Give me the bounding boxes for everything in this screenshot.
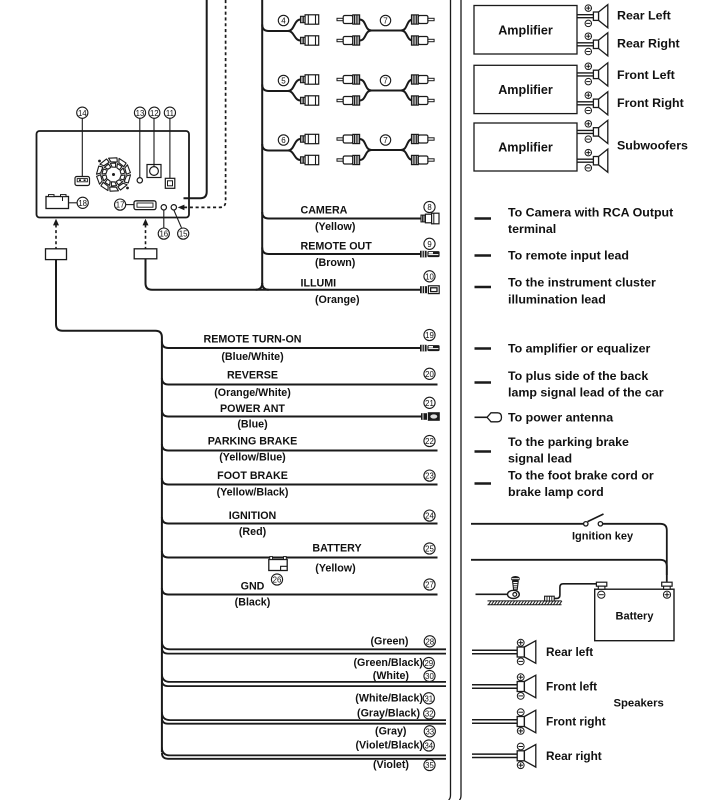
label circle 11 xyxy=(164,107,175,118)
svg-text:POWER ANT: POWER ANT xyxy=(220,403,285,415)
label circle 32 xyxy=(424,708,435,719)
minus terminal xyxy=(585,48,592,55)
port 13 (mic jack) xyxy=(137,178,142,183)
port 11 (optical connector) xyxy=(165,178,175,188)
svg-text:To remote input lead: To remote input lead xyxy=(508,249,629,263)
connector 18 (power harness socket) xyxy=(46,195,69,209)
plus terminal xyxy=(585,33,592,40)
svg-text:Rear Left: Rear Left xyxy=(617,9,671,23)
fuse 26 on battery lead xyxy=(269,557,287,571)
svg-text:(Blue): (Blue) xyxy=(237,419,268,431)
svg-text:35: 35 xyxy=(425,761,434,770)
svg-text:(Gray/Black): (Gray/Black) xyxy=(357,708,420,720)
USB port 14 xyxy=(75,177,90,186)
svg-text:29: 29 xyxy=(424,659,433,668)
bus wire from top edge (RCA/output harness) xyxy=(261,0,263,284)
svg-text:(Brown): (Brown) xyxy=(315,257,356,269)
RCA female jack bottom (4) xyxy=(301,37,306,43)
wire REMOTE OUT (brown) xyxy=(262,248,420,255)
wire REMOTE TURN-ON xyxy=(162,342,420,349)
port 12 (antenna jack U12) xyxy=(147,165,161,178)
speaker xyxy=(593,40,598,48)
svg-text:PARKING BRAKE: PARKING BRAKE xyxy=(208,435,297,447)
svg-text:27: 27 xyxy=(425,581,434,590)
svg-text:18: 18 xyxy=(78,199,87,208)
label circle 10 xyxy=(424,271,435,282)
wire FOOT BRAKE xyxy=(162,478,438,485)
svg-text:6: 6 xyxy=(281,136,286,145)
plus sign xyxy=(663,591,670,598)
svg-text:Subwoofers: Subwoofers xyxy=(617,139,688,153)
wire ILLUMI (orange): tee from bus, also feeds from harness block xyxy=(146,259,422,290)
minus terminal xyxy=(585,165,592,172)
svg-text:(Yellow/Blue): (Yellow/Blue) xyxy=(219,451,286,463)
label 14 leader xyxy=(81,118,83,176)
RCA male plug top-left xyxy=(337,78,343,80)
ignition switch xyxy=(584,522,588,526)
svg-text:17: 17 xyxy=(116,201,125,210)
divider line (right) xyxy=(459,0,461,800)
note: To Camera with RCA Output xyxy=(475,217,492,220)
head unit rear panel box xyxy=(37,131,190,218)
bus tee junction into ILLUMI lead xyxy=(256,283,269,290)
label 16 leader xyxy=(163,210,165,228)
label circle 12 xyxy=(149,107,160,118)
svg-text:13: 13 xyxy=(136,109,145,118)
svg-text:illumination lead: illumination lead xyxy=(508,293,606,307)
wire from ground lead to battery minus xyxy=(554,584,596,599)
label circle 13 xyxy=(134,107,145,118)
speaker Front right xyxy=(472,719,517,721)
minus terminal xyxy=(585,78,592,85)
svg-text:28: 28 xyxy=(425,637,434,646)
label circle 31 xyxy=(423,693,434,704)
speaker wire pair 3 xyxy=(162,712,446,720)
speaker xyxy=(593,70,598,78)
RCA output pair branch (5) xyxy=(262,85,289,92)
svg-text:To the instrument cluster: To the instrument cluster xyxy=(508,276,656,290)
svg-text:To the parking brake: To the parking brake xyxy=(508,435,629,449)
label 15 leader xyxy=(174,210,182,228)
RCA male plug bottom-right xyxy=(412,155,419,164)
label circle 15 xyxy=(178,228,189,239)
RCA male plug bottom-right xyxy=(412,96,419,105)
label circle 19 xyxy=(424,329,435,340)
RCA male plug top-right xyxy=(412,134,419,143)
speaker wire pair 4 xyxy=(162,747,446,755)
svg-text:(Violet): (Violet) xyxy=(373,759,409,771)
label circle 22 xyxy=(424,435,435,446)
label circle 35 xyxy=(424,759,435,770)
svg-text:21: 21 xyxy=(425,399,434,408)
minus terminal xyxy=(585,107,592,114)
note: To plus side of the back xyxy=(475,381,492,384)
svg-text:(White): (White) xyxy=(373,670,410,682)
svg-text:REMOTE OUT: REMOTE OUT xyxy=(301,240,373,252)
svg-text:(Red): (Red) xyxy=(239,526,267,538)
connector 21 (bullet w/ eye) xyxy=(421,412,440,421)
plus terminal xyxy=(585,5,592,12)
svg-text:Amplifier: Amplifier xyxy=(498,141,553,155)
svg-text:FOOT BRAKE: FOOT BRAKE xyxy=(217,470,288,482)
svg-text:GND: GND xyxy=(241,580,265,592)
label circle 34 xyxy=(423,740,434,751)
speaker Front left xyxy=(472,684,517,686)
chassis ground bar (hatched) xyxy=(488,601,562,605)
wire: solid lead from rear panel up to top edge xyxy=(184,0,207,198)
label circle 9 xyxy=(424,238,435,249)
wire REVERSE xyxy=(162,378,438,385)
label circle 16 xyxy=(158,228,169,239)
svg-text:Rear Right: Rear Right xyxy=(617,37,680,51)
svg-text:(White/Black): (White/Black) xyxy=(355,692,423,704)
label circle 5 xyxy=(278,75,288,85)
RCA female jack top (6) xyxy=(301,136,306,142)
svg-text:7: 7 xyxy=(383,136,388,145)
label circle 27 xyxy=(424,579,435,590)
speaker xyxy=(593,157,598,165)
label 13 leader xyxy=(139,118,141,177)
harness plug block (right) xyxy=(134,249,157,259)
wire POWER ANT xyxy=(162,410,421,417)
svg-text:signal lead: signal lead xyxy=(508,452,572,466)
svg-text:10: 10 xyxy=(425,272,434,281)
svg-text:brake lamp cord: brake lamp cord xyxy=(508,485,604,499)
wire: dashed lead to port 15 (from top edge) xyxy=(184,0,226,207)
arrow into port 15 xyxy=(178,205,185,211)
svg-text:lamp signal lead of the car: lamp signal lead of the car xyxy=(508,386,664,400)
amplifier speaker output xyxy=(577,158,593,160)
svg-text:To power antenna: To power antenna xyxy=(508,411,613,425)
RCA male plug top-left xyxy=(337,18,343,20)
svg-text:7: 7 xyxy=(383,77,388,86)
plus terminal xyxy=(585,121,592,128)
connector 19 (bullet) xyxy=(420,345,440,352)
RCA extension cable (7) xyxy=(360,139,402,150)
battery direct wire xyxy=(471,560,667,575)
battery box xyxy=(595,589,674,641)
RCA female jack top (4) xyxy=(301,16,306,22)
svg-text:ILLUMI: ILLUMI xyxy=(301,277,337,289)
label circle 7 xyxy=(380,15,390,25)
speaker wire pair 1 xyxy=(162,641,446,649)
label circle 26 xyxy=(271,574,282,585)
battery minus post xyxy=(596,582,606,589)
wire from switch to battery plus xyxy=(603,524,667,582)
speaker Rear right xyxy=(472,753,517,755)
svg-text:Front left: Front left xyxy=(546,680,597,694)
svg-text:11: 11 xyxy=(166,109,174,118)
wire IGNITION xyxy=(162,517,438,524)
svg-text:25: 25 xyxy=(425,545,434,554)
RCA male plug top-left xyxy=(337,138,343,140)
plus terminal xyxy=(585,92,592,99)
svg-text:Ignition key: Ignition key xyxy=(572,531,634,543)
amplifier speaker output xyxy=(577,42,593,44)
wire GND xyxy=(162,588,438,595)
amplifier speaker output xyxy=(577,72,593,74)
cooling fan xyxy=(112,173,115,176)
label circle 24 xyxy=(424,510,435,521)
label circle 18 xyxy=(77,197,88,208)
label circle 21 xyxy=(424,397,435,408)
svg-text:(Yellow): (Yellow) xyxy=(315,221,356,233)
ring terminal xyxy=(508,590,520,598)
svg-text:31: 31 xyxy=(424,694,433,703)
svg-text:8: 8 xyxy=(427,203,431,212)
svg-text:Rear left: Rear left xyxy=(546,645,593,659)
svg-text:(Green): (Green) xyxy=(370,635,408,647)
label circle 8 xyxy=(424,201,435,212)
RCA male plug bottom-right xyxy=(412,36,419,45)
svg-text:34: 34 xyxy=(424,742,433,751)
svg-text:Front Left: Front Left xyxy=(617,68,675,82)
RCA female jack bottom (5) xyxy=(301,97,306,103)
svg-text:Front Right: Front Right xyxy=(617,96,684,110)
svg-text:30: 30 xyxy=(425,672,434,681)
svg-text:Rear right: Rear right xyxy=(546,749,602,763)
harness plug block (left) xyxy=(46,249,67,260)
svg-text:16: 16 xyxy=(159,230,168,239)
RCA extension cable (7) xyxy=(360,20,402,31)
port 16 xyxy=(161,205,166,210)
svg-text:19: 19 xyxy=(425,331,434,340)
svg-text:Amplifier: Amplifier xyxy=(498,23,553,37)
svg-text:(Orange): (Orange) xyxy=(315,294,360,306)
label circle 7 xyxy=(380,135,390,145)
label circle 33 xyxy=(424,726,435,737)
svg-text:7: 7 xyxy=(383,17,388,26)
svg-text:To Camera with RCA Output: To Camera with RCA Output xyxy=(508,206,673,220)
svg-text:23: 23 xyxy=(425,472,434,481)
svg-text:9: 9 xyxy=(427,240,431,249)
RCA extension cable (7) xyxy=(360,80,402,91)
svg-text:22: 22 xyxy=(425,437,434,446)
RCA male plug bottom-left xyxy=(337,159,343,161)
label 11 leader xyxy=(169,118,171,178)
RCA female jack bottom (6) xyxy=(301,157,306,163)
label circle 30 xyxy=(424,670,435,681)
svg-text:4: 4 xyxy=(281,17,286,26)
svg-text:IGNITION: IGNITION xyxy=(229,510,277,522)
svg-text:CAMERA: CAMERA xyxy=(301,204,348,216)
svg-text:15: 15 xyxy=(179,230,188,239)
RCA male plug bottom-left xyxy=(337,99,343,101)
RCA male plug top-right xyxy=(412,15,419,24)
amplifier speaker output xyxy=(577,14,593,16)
note: To the parking brake xyxy=(475,450,492,453)
fuse holder on ground lead xyxy=(545,596,555,601)
svg-text:BATTERY: BATTERY xyxy=(312,543,361,555)
battery plus post xyxy=(662,582,672,589)
svg-text:14: 14 xyxy=(78,109,87,118)
RCA output pair branch (4) xyxy=(262,25,289,32)
svg-text:REMOTE TURN-ON: REMOTE TURN-ON xyxy=(204,333,302,345)
connector 10 (spade) xyxy=(420,286,439,294)
amplifier box 3 xyxy=(474,123,577,171)
label circle 17 xyxy=(115,199,126,210)
label circle 23 xyxy=(424,470,435,481)
ignition key wire xyxy=(471,523,584,525)
wire CAMERA (yellow) xyxy=(262,212,421,219)
dashed arrow up to connector 18 xyxy=(55,225,57,249)
svg-text:To amplifier or equalizer: To amplifier or equalizer xyxy=(508,342,650,356)
amplifier box 1 xyxy=(474,6,577,55)
connector 8 (RCA jack) xyxy=(421,213,439,224)
svg-text:(Gray): (Gray) xyxy=(375,725,407,737)
note: To remote input lead xyxy=(475,254,492,257)
svg-text:(Green/Black): (Green/Black) xyxy=(354,657,424,669)
note: To the instrument cluster xyxy=(475,286,492,289)
chassis screw xyxy=(511,576,520,590)
main harness wire from left plug block down and across xyxy=(56,260,162,753)
speaker xyxy=(593,128,598,136)
minus terminal xyxy=(585,20,592,27)
svg-text:Front right: Front right xyxy=(546,715,606,729)
label circle 28 xyxy=(424,636,435,647)
speaker xyxy=(593,99,598,107)
svg-text:terminal: terminal xyxy=(508,222,556,236)
label circle 7 xyxy=(380,75,390,85)
svg-text:To the foot brake cord or: To the foot brake cord or xyxy=(508,469,654,483)
svg-text:24: 24 xyxy=(425,512,434,521)
note: To the foot brake cord or xyxy=(475,482,492,485)
svg-text:(Orange/White): (Orange/White) xyxy=(214,387,291,399)
svg-text:(Black): (Black) xyxy=(235,597,271,609)
label 18 leader xyxy=(69,202,78,204)
label circle 29 xyxy=(423,657,434,668)
RCA output pair branch (6) xyxy=(262,144,289,151)
label circle 4 xyxy=(278,15,288,25)
connector 17 (harness socket) xyxy=(134,201,156,210)
wire PARKING BRAKE xyxy=(162,444,438,451)
svg-text:33: 33 xyxy=(425,727,434,736)
speaker wire pair 2 xyxy=(162,674,446,682)
label circle 14 xyxy=(77,107,88,118)
note: To amplifier or equalizer xyxy=(475,347,492,350)
label 12 leader xyxy=(153,118,155,166)
svg-text:(Yellow/Black): (Yellow/Black) xyxy=(217,487,289,499)
svg-text:26: 26 xyxy=(273,576,282,585)
svg-text:Amplifier: Amplifier xyxy=(498,83,553,97)
label 17 leader xyxy=(126,204,134,206)
dashed arrow up to connector 17 xyxy=(145,225,147,249)
speaker Rear left xyxy=(472,649,517,651)
power antenna plug icon xyxy=(475,416,489,418)
amplifier box 2 xyxy=(474,65,577,113)
svg-text:5: 5 xyxy=(281,77,286,86)
RCA male plug top-right xyxy=(412,75,419,84)
amplifier speaker output xyxy=(577,129,593,131)
label circle 20 xyxy=(424,368,435,379)
RCA male plug bottom-left xyxy=(337,39,343,41)
svg-text:(Violet/Black): (Violet/Black) xyxy=(355,740,423,752)
wire BATTERY xyxy=(162,551,438,558)
port 15 xyxy=(171,205,176,210)
speaker xyxy=(593,12,598,20)
amplifier speaker output xyxy=(577,101,593,103)
svg-text:Battery: Battery xyxy=(616,611,655,623)
svg-text:(Blue/White): (Blue/White) xyxy=(221,351,284,363)
ground wire to chassis xyxy=(476,593,508,595)
label circle 25 xyxy=(424,543,435,554)
svg-text:Speakers: Speakers xyxy=(614,698,664,710)
svg-text:To plus side of the back: To plus side of the back xyxy=(508,369,648,383)
plus terminal xyxy=(585,63,592,70)
svg-text:20: 20 xyxy=(425,370,434,379)
RCA female jack top (5) xyxy=(301,76,306,82)
minus terminal xyxy=(585,136,592,143)
minus sign xyxy=(598,591,605,598)
svg-text:(Yellow): (Yellow) xyxy=(315,563,356,575)
label circle 6 xyxy=(278,135,288,145)
plus terminal xyxy=(585,149,592,156)
svg-text:12: 12 xyxy=(150,109,159,118)
divider line (left) xyxy=(449,0,451,800)
svg-text:REVERSE: REVERSE xyxy=(227,370,278,382)
connector 9 (bullet) xyxy=(420,251,440,258)
svg-text:32: 32 xyxy=(425,710,434,719)
